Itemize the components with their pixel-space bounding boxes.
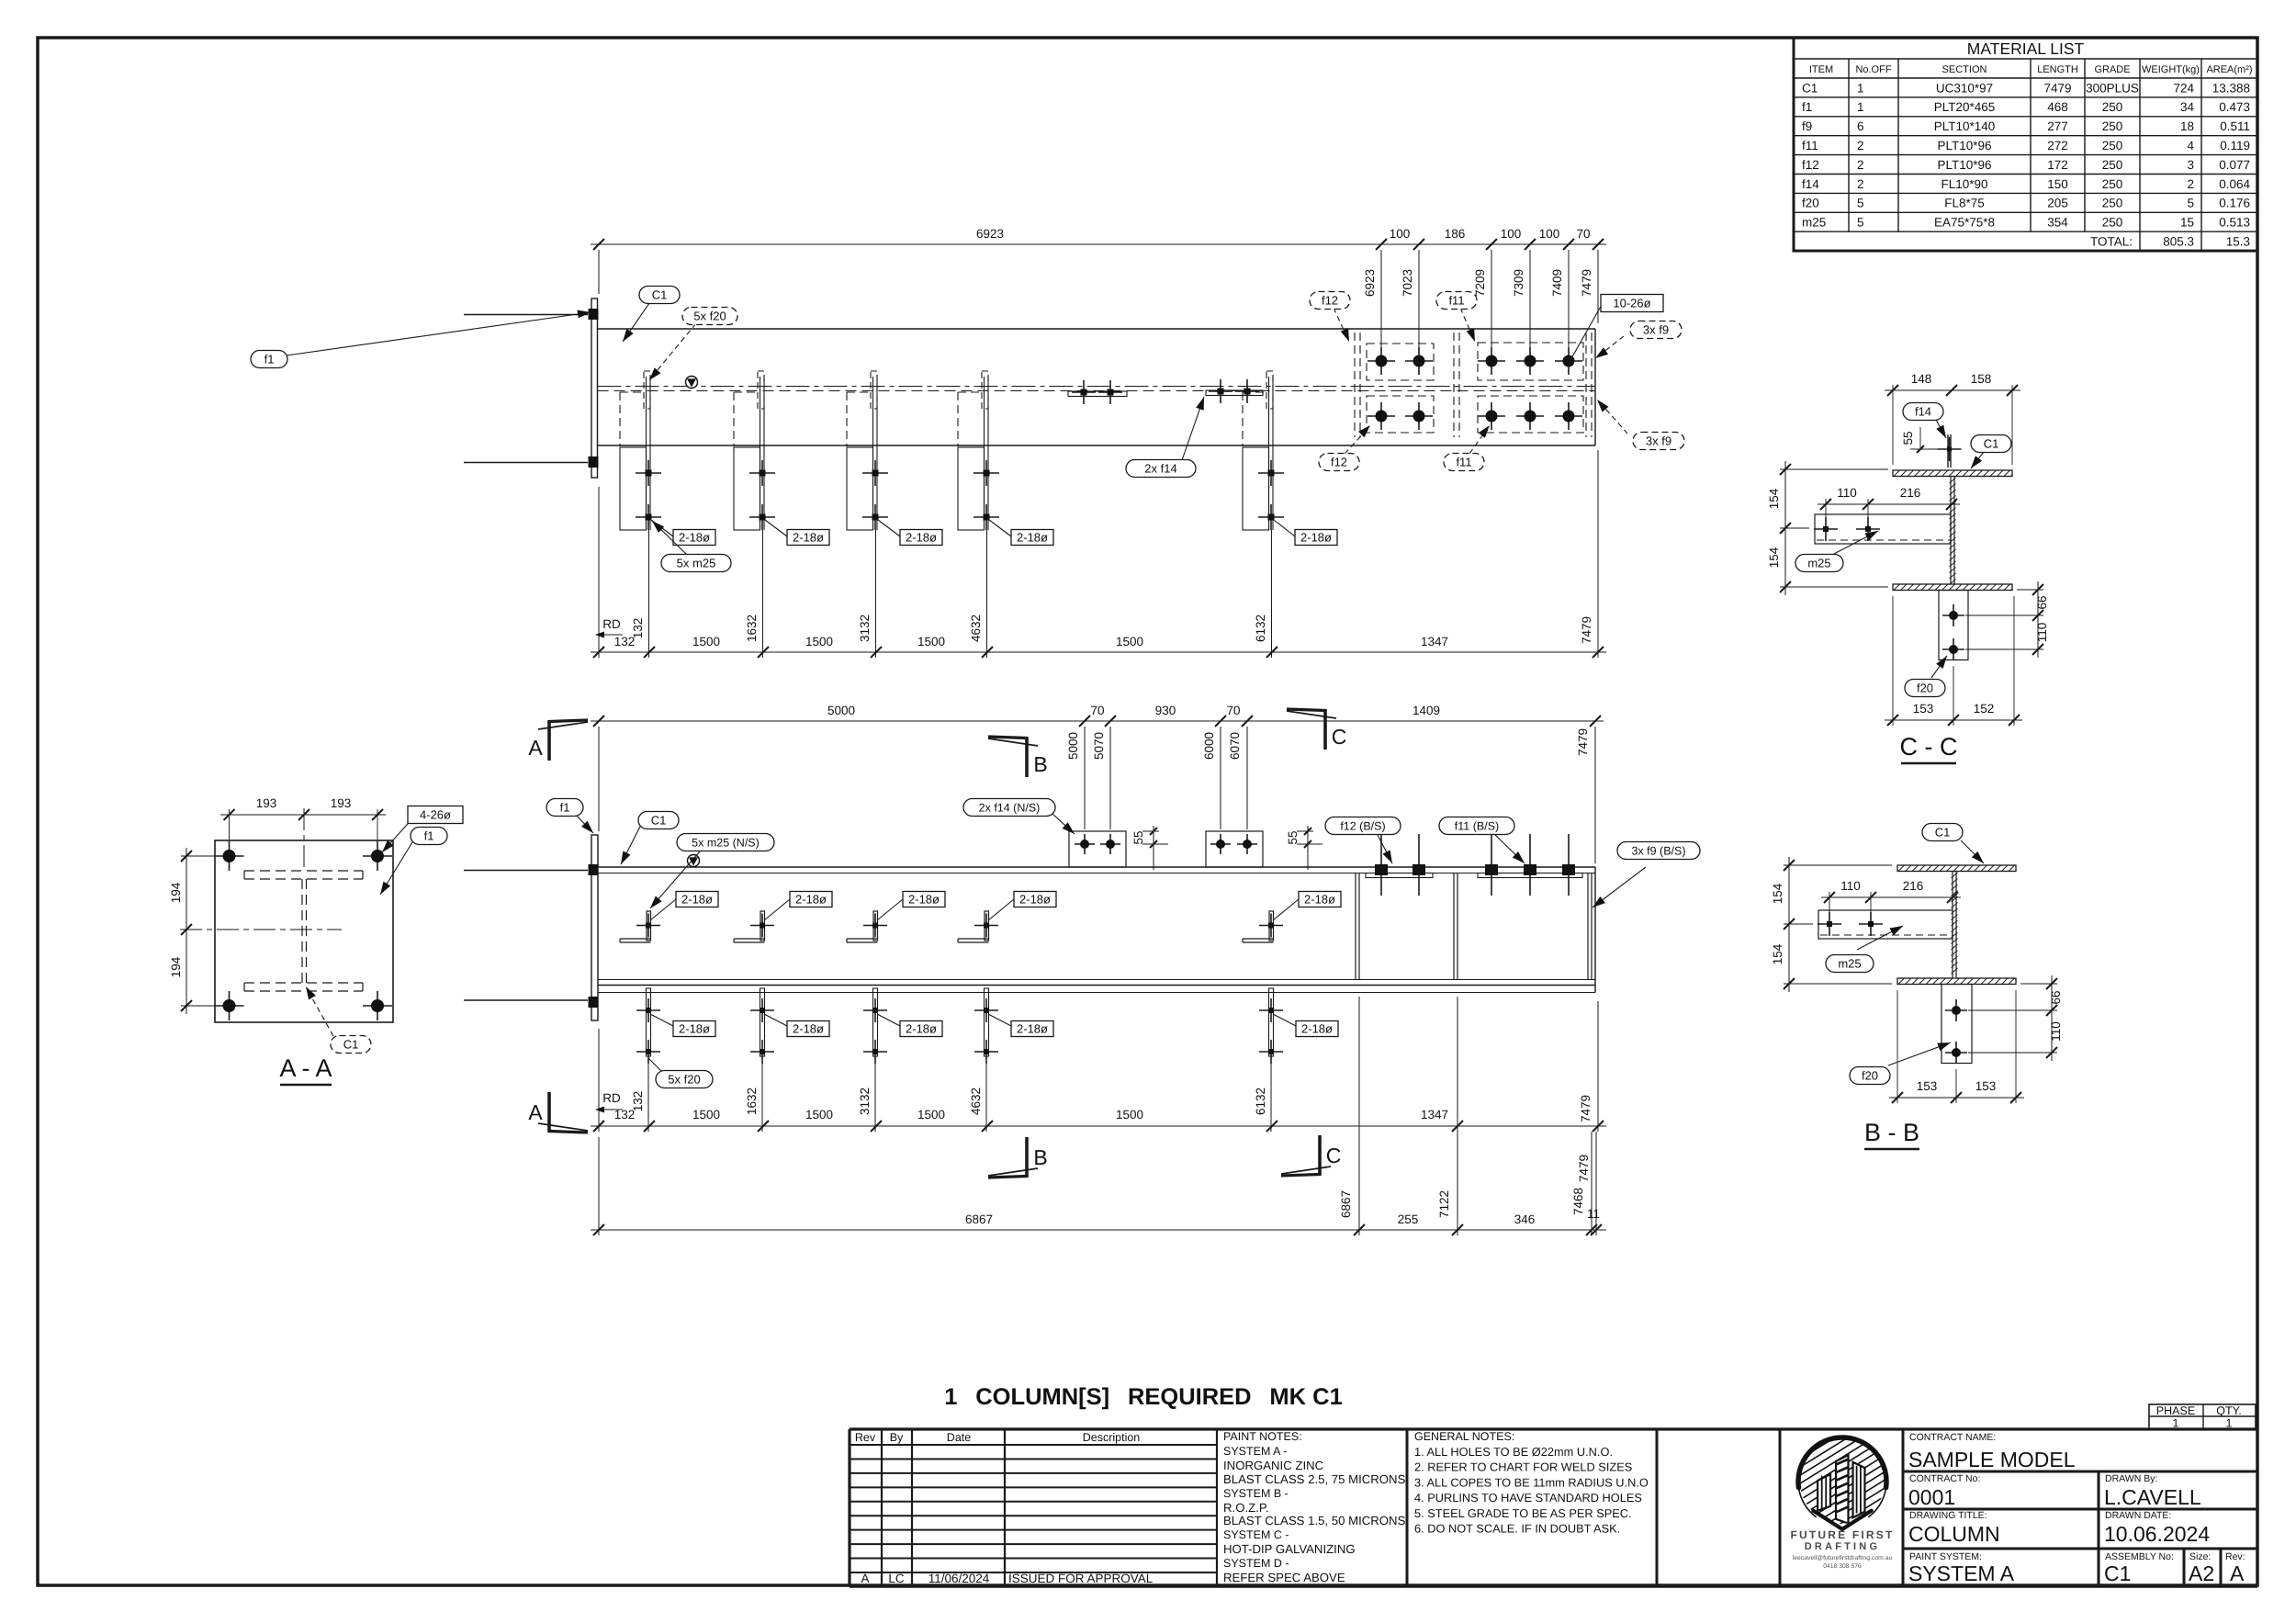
- elevation: cleat label 2-18ø #4: [988, 899, 1014, 920]
- svg-text:2-18ø: 2-18ø: [679, 1022, 710, 1036]
- svg-text:6000: 6000: [1202, 732, 1216, 760]
- svg-text:RD: RD: [602, 1091, 621, 1105]
- svg-text:REFER SPEC ABOVE: REFER SPEC ABOVE: [1223, 1571, 1345, 1584]
- svg-text:6132: 6132: [1254, 1088, 1267, 1115]
- svg-text:277: 277: [2047, 119, 2068, 133]
- top view: f12 plate edge (hidden): [1354, 332, 1356, 437]
- svg-text:No.OFF: No.OFF: [1855, 64, 1891, 75]
- elevation: beam right end f9 plates: [1587, 873, 1589, 980]
- elevation: cleat label 2-18ø #1: [650, 899, 676, 920]
- svg-text:m25: m25: [1838, 957, 1861, 971]
- top view: cleat m25 #4: [958, 371, 999, 658]
- svg-text:f1: f1: [560, 801, 570, 815]
- svg-text:7479: 7479: [1580, 269, 1593, 297]
- svg-text:11/06/2024: 11/06/2024: [929, 1572, 990, 1585]
- svg-text:172: 172: [2047, 158, 2068, 172]
- top view: weld symbol: [686, 377, 698, 389]
- svg-text:250: 250: [2102, 197, 2123, 210]
- elevation: angle cleat m25 #5: [1243, 911, 1283, 942]
- svg-text:154: 154: [1771, 943, 1784, 964]
- svg-text:L.CAVELL: L.CAVELL: [2104, 1485, 2201, 1509]
- top view: labels 3x f9: [1598, 336, 1624, 356]
- svg-text:6867: 6867: [965, 1212, 993, 1226]
- svg-text:7479: 7479: [2043, 81, 2071, 95]
- section C-C: bottom flange C1: [1893, 584, 2012, 591]
- title block: logo panel: [1779, 1429, 1782, 1586]
- section C-C: label f14: [1935, 418, 1946, 438]
- svg-text:6: 6: [1857, 119, 1864, 133]
- svg-text:1: 1: [2226, 1417, 2233, 1430]
- elevation: f20 plate #2: [750, 988, 774, 1132]
- svg-text:2-18ø: 2-18ø: [793, 531, 824, 545]
- svg-text:A - A: A - A: [279, 1054, 332, 1082]
- svg-text:CONTRACT NAME:: CONTRACT NAME:: [1909, 1432, 1996, 1443]
- svg-text:3132: 3132: [858, 614, 872, 642]
- svg-text:66: 66: [2049, 990, 2063, 1004]
- svg-text:4632: 4632: [969, 1088, 983, 1115]
- section B-B: right dimension 66/110: [1968, 975, 2063, 1061]
- svg-text:18: 18: [2180, 119, 2194, 133]
- svg-text:f11: f11: [1802, 139, 1818, 152]
- svg-text:CONTRACT No:: CONTRACT No:: [1909, 1473, 1980, 1484]
- svg-text:153: 153: [1913, 702, 1934, 716]
- elevation: beam C1 flanges: [598, 866, 1595, 868]
- svg-text:300PLUS: 300PLUS: [2086, 81, 2139, 95]
- svg-text:2-18ø: 2-18ø: [1304, 893, 1335, 907]
- svg-text:2-18ø: 2-18ø: [795, 893, 827, 907]
- svg-text:f1: f1: [264, 353, 275, 366]
- svg-text:2: 2: [1857, 139, 1864, 152]
- top view: left connection lines: [464, 314, 588, 316]
- svg-text:GRADE: GRADE: [2094, 64, 2130, 75]
- svg-text:6132: 6132: [1254, 614, 1267, 642]
- elevation: f20 plate #3: [863, 988, 887, 1132]
- svg-text:6923: 6923: [976, 227, 1004, 241]
- svg-text:SYSTEM C -: SYSTEM C -: [1223, 1528, 1289, 1541]
- svg-text:154: 154: [1767, 547, 1781, 568]
- elevation: angle cleat m25 #4: [958, 911, 998, 942]
- svg-text:153: 153: [1975, 1079, 1997, 1093]
- svg-text:354: 354: [2047, 216, 2068, 230]
- svg-text:PLT10*96: PLT10*96: [1937, 158, 1991, 172]
- svg-text:5x f20: 5x f20: [668, 1073, 700, 1087]
- svg-text:C1: C1: [1935, 826, 1951, 840]
- svg-text:SYSTEM A -: SYSTEM A -: [1223, 1445, 1287, 1458]
- svg-text:70: 70: [1226, 704, 1240, 717]
- svg-text:PAINT NOTES:: PAINT NOTES:: [1223, 1430, 1302, 1443]
- svg-text:f20: f20: [1917, 682, 1933, 695]
- svg-text:0.511: 0.511: [2220, 119, 2250, 133]
- svg-text:B - B: B - B: [1864, 1119, 1919, 1146]
- svg-text:110: 110: [1837, 486, 1857, 500]
- svg-text:7468: 7468: [1571, 1188, 1585, 1215]
- svg-text:7409: 7409: [1550, 269, 1564, 297]
- svg-text:DRAFTING: DRAFTING: [1805, 1541, 1880, 1552]
- svg-text:724: 724: [2173, 81, 2194, 95]
- svg-text:7023: 7023: [1401, 269, 1414, 297]
- title block: phase qty table: [2149, 1404, 2256, 1430]
- svg-text:3x f9 (B/S): 3x f9 (B/S): [1631, 845, 1685, 858]
- elevation: f20 label 2-18ø #1: [650, 1014, 673, 1026]
- svg-text:f1: f1: [424, 829, 434, 843]
- svg-text:f9: f9: [1802, 119, 1812, 133]
- svg-text:1: 1: [1857, 81, 1864, 95]
- elevation: f11 plate under flange: [1478, 873, 1582, 878]
- svg-text:C1: C1: [651, 814, 667, 828]
- section B-B: bottom dimension 153/153: [1889, 990, 2024, 1103]
- svg-text:10.06.2024: 10.06.2024: [2104, 1522, 2210, 1546]
- section marker A top: [528, 720, 588, 761]
- svg-text:f12: f12: [1331, 456, 1347, 469]
- elevation: label f1: [577, 816, 593, 833]
- svg-text:5: 5: [1857, 197, 1864, 210]
- svg-text:A: A: [861, 1572, 869, 1585]
- top view: cleat m25 #3: [847, 371, 888, 658]
- svg-text:100: 100: [1539, 227, 1560, 241]
- svg-text:70: 70: [1576, 227, 1590, 241]
- svg-text:1 COLUMN[S] REQUIRED MK C1: 1 COLUMN[S] REQUIRED MK C1: [944, 1384, 1343, 1410]
- svg-text:HOT-DIP GALVANIZING: HOT-DIP GALVANIZING: [1223, 1542, 1356, 1556]
- top view: cleat m25 #2: [734, 371, 775, 658]
- svg-text:930: 930: [1155, 704, 1176, 717]
- svg-text:COLUMN: COLUMN: [1908, 1522, 2000, 1546]
- svg-text:C1: C1: [1802, 81, 1818, 95]
- section C-C: 55 dim: [1919, 427, 1921, 449]
- svg-text:7479: 7479: [1580, 616, 1593, 644]
- svg-text:1500: 1500: [692, 635, 720, 648]
- elevation: flange bolts f12: [1380, 834, 1382, 896]
- svg-text:1500: 1500: [692, 1108, 720, 1121]
- svg-text:6867: 6867: [1339, 1190, 1353, 1218]
- svg-text:m25: m25: [1807, 557, 1830, 570]
- elevation: f20 label 2-18ø #3: [877, 1014, 900, 1026]
- svg-text:1347: 1347: [1421, 635, 1448, 648]
- top view: label f1: [287, 312, 591, 355]
- material list table: [1794, 38, 2257, 251]
- svg-text:f14: f14: [1915, 405, 1931, 419]
- section A-A: anchor bolts 26dia: [215, 855, 244, 857]
- svg-text:DRAWN DATE:: DRAWN DATE:: [2105, 1510, 2171, 1521]
- svg-text:3x f9: 3x f9: [1643, 323, 1669, 337]
- svg-text:1347: 1347: [1421, 1108, 1448, 1121]
- svg-text:A2: A2: [2189, 1561, 2214, 1585]
- elevation: label 2x f14 (N/S): [1052, 814, 1075, 834]
- svg-text:2x f14: 2x f14: [1144, 462, 1176, 476]
- svg-text:1500: 1500: [1116, 635, 1143, 648]
- svg-text:6923: 6923: [1363, 269, 1377, 297]
- svg-text:2-18ø: 2-18ø: [1017, 1022, 1048, 1036]
- svg-text:SYSTEM A: SYSTEM A: [1908, 1561, 2015, 1585]
- title block: drawing title / drawn date: [1903, 1510, 2257, 1549]
- svg-text:250: 250: [2102, 139, 2123, 152]
- svg-text:m25: m25: [1802, 216, 1826, 230]
- svg-text:UC310*97: UC310*97: [1936, 81, 1993, 95]
- svg-text:34: 34: [2180, 100, 2195, 114]
- svg-text:272: 272: [2047, 139, 2068, 152]
- section C-C: label m25: [1832, 531, 1878, 555]
- svg-text:0418 308 576: 0418 308 576: [1823, 1563, 1862, 1570]
- svg-text:3x f9: 3x f9: [1646, 434, 1671, 448]
- section A-A: left dimension 194/194: [169, 848, 222, 1014]
- top view: label 2-18ø #2: [765, 520, 787, 536]
- top view: beam centre lines: [598, 386, 1596, 388]
- svg-text:2-18ø: 2-18ø: [1017, 531, 1048, 545]
- svg-text:f14: f14: [1802, 177, 1819, 191]
- svg-text:1: 1: [2173, 1417, 2179, 1430]
- svg-text:7209: 7209: [1473, 269, 1487, 297]
- svg-text:TOTAL:: TOTAL:: [2090, 235, 2133, 249]
- svg-text:250: 250: [2102, 100, 2123, 114]
- svg-text:148: 148: [1911, 372, 1932, 386]
- elevation: cleat label 2-18ø #3: [877, 899, 903, 920]
- svg-text:C - C: C - C: [1900, 733, 1958, 761]
- svg-text:EA75*75*8: EA75*75*8: [1934, 216, 1995, 230]
- svg-text:LENGTH: LENGTH: [2037, 64, 2078, 75]
- svg-text:154: 154: [1767, 488, 1781, 509]
- elevation: end plate f1: [591, 835, 598, 1020]
- top view: end plate f1: [591, 299, 598, 478]
- svg-text:AREA(m²): AREA(m²): [2206, 64, 2252, 75]
- elevation: weld symbol: [688, 855, 700, 867]
- section C-C: top dimension 148/158: [1885, 372, 2020, 465]
- top view: label 2-18ø #3: [878, 520, 900, 536]
- svg-text:FUTURE FIRST: FUTURE FIRST: [1790, 1528, 1894, 1541]
- svg-text:QTY.: QTY.: [2216, 1404, 2242, 1417]
- svg-text:6. DO NOT SCALE. IF IN DOUBT A: 6. DO NOT SCALE. IF IN DOUBT ASK.: [1414, 1522, 1620, 1536]
- svg-text:100: 100: [1390, 227, 1411, 241]
- svg-text:1: 1: [1857, 100, 1864, 114]
- svg-text:193: 193: [331, 796, 352, 810]
- section marker C bottom: [1281, 1135, 1341, 1176]
- section B-B: label f20: [1888, 1043, 1951, 1065]
- svg-text:2-18ø: 2-18ø: [679, 531, 710, 545]
- svg-text:SYSTEM D -: SYSTEM D -: [1223, 1557, 1289, 1570]
- top view: f9 end plates edge (hidden): [1585, 332, 1587, 437]
- svg-text:A: A: [2230, 1561, 2245, 1585]
- section A-A: centre lines: [180, 929, 342, 930]
- elevation: label f11 (B/S): [1495, 835, 1525, 863]
- section B-B: dimension 110/216: [1821, 879, 1961, 915]
- svg-text:f12: f12: [1322, 294, 1338, 308]
- top view: label 2-18ø #5: [1274, 520, 1295, 536]
- svg-text:FL10*90: FL10*90: [1941, 177, 1987, 191]
- svg-text:SYSTEM B -: SYSTEM B -: [1223, 1487, 1289, 1500]
- svg-text:55: 55: [1286, 830, 1300, 844]
- svg-text:250: 250: [2102, 119, 2123, 133]
- elevation: angle cleat m25 #1: [620, 911, 660, 942]
- svg-text:SECTION: SECTION: [1942, 64, 1987, 75]
- elevation: f12 web plate edges: [1355, 873, 1356, 980]
- svg-text:4. PURLINS TO HAVE STANDARD HO: 4. PURLINS TO HAVE STANDARD HOLES: [1414, 1491, 1642, 1505]
- svg-text:C1: C1: [343, 1038, 359, 1052]
- section marker B bottom: [988, 1137, 1048, 1178]
- section C-C: label f20: [1931, 656, 1947, 678]
- svg-text:7479: 7479: [1576, 728, 1590, 756]
- svg-text:0.473: 0.473: [2219, 100, 2250, 114]
- svg-text:1632: 1632: [745, 1088, 759, 1115]
- section marker B top: [988, 737, 1048, 777]
- svg-text:250: 250: [2102, 216, 2123, 230]
- section marker C top: [1287, 709, 1346, 750]
- svg-text:250: 250: [2102, 177, 2123, 191]
- section A-A: hidden column section C1: [244, 871, 363, 991]
- svg-text:7309: 7309: [1512, 269, 1525, 297]
- svg-text:2-18ø: 2-18ø: [1301, 1022, 1333, 1036]
- svg-text:Description: Description: [1083, 1431, 1141, 1444]
- svg-text:70: 70: [1090, 704, 1104, 717]
- svg-text:2: 2: [1857, 177, 1864, 191]
- section B-B: web C1: [1952, 872, 1953, 979]
- section B-B: label C1: [1961, 840, 1984, 863]
- title block: contract no / drawn by: [1903, 1471, 2257, 1586]
- svg-text:194: 194: [169, 882, 183, 903]
- title block: general notes: [1414, 1429, 1657, 1586]
- top view: bolts 26dia: [1367, 360, 1395, 362]
- section A-A: base plate f1: [215, 840, 393, 1022]
- svg-text:250: 250: [2102, 158, 2123, 172]
- top view: label 2-18ø #1: [651, 520, 673, 536]
- elevation: f12 plate under flange: [1366, 873, 1433, 878]
- section C-C: dimension 110/216: [1818, 486, 1960, 520]
- elevation: dimension row 6867/255/346/11: [591, 997, 1606, 1235]
- svg-text:154: 154: [1771, 883, 1784, 904]
- svg-text:SAMPLE MODEL: SAMPLE MODEL: [1908, 1448, 2076, 1471]
- elevation: f20 plate #1: [636, 988, 660, 1132]
- svg-text:11: 11: [1587, 1207, 1600, 1221]
- svg-text:150: 150: [2047, 177, 2068, 191]
- elevation: cleat label 2-18ø #2: [764, 899, 790, 920]
- top view: label 2-18ø #4: [989, 520, 1011, 536]
- top view: f11 plate edge (hidden): [1453, 332, 1455, 437]
- section C-C: plate f14: [1947, 434, 1949, 468]
- svg-text:R.O.Z.P.: R.O.Z.P.: [1223, 1501, 1269, 1515]
- svg-text:7122: 7122: [1437, 1190, 1451, 1218]
- section C-C: right dimension 66/110: [1965, 581, 2049, 658]
- svg-text:1. ALL HOLES TO BE Ø22mm U.N.O: 1. ALL HOLES TO BE Ø22mm U.N.O.: [1414, 1445, 1613, 1459]
- top view: f11 labels: [1460, 308, 1473, 338]
- svg-text:55: 55: [1131, 830, 1145, 844]
- svg-text:55: 55: [1901, 431, 1915, 445]
- top view: f12 labels: [1334, 308, 1347, 338]
- svg-text:INORGANIC ZINC: INORGANIC ZINC: [1223, 1459, 1324, 1472]
- svg-text:f12: f12: [1802, 158, 1819, 172]
- svg-text:1500: 1500: [805, 1108, 833, 1121]
- title block: paint system / assembly no / size / rev: [1908, 1549, 2245, 1586]
- svg-text:1500: 1500: [805, 635, 833, 648]
- svg-text:C: C: [1326, 1144, 1342, 1167]
- svg-text:468: 468: [2047, 100, 2068, 114]
- svg-text:205: 205: [2047, 197, 2068, 210]
- svg-text:BLAST CLASS 1.5, 50 MICRONS: BLAST CLASS 1.5, 50 MICRONS: [1223, 1514, 1406, 1527]
- svg-text:By: By: [890, 1431, 904, 1444]
- top view: label C1: [623, 303, 649, 342]
- svg-text:RD: RD: [602, 617, 621, 631]
- svg-text:216: 216: [1903, 879, 1924, 893]
- svg-text:2-18ø: 2-18ø: [906, 1022, 937, 1036]
- svg-text:194: 194: [169, 956, 183, 977]
- section A-A: label C1: [308, 990, 333, 1036]
- svg-text:1409: 1409: [1412, 704, 1440, 717]
- section B-B: left dimension 154/154: [1771, 857, 1892, 992]
- svg-text:6070: 6070: [1228, 732, 1242, 760]
- svg-text:GENERAL NOTES:: GENERAL NOTES:: [1414, 1430, 1514, 1443]
- svg-text:5: 5: [2187, 197, 2194, 210]
- svg-text:B: B: [1033, 1145, 1047, 1169]
- svg-text:MATERIAL LIST: MATERIAL LIST: [1967, 39, 2085, 58]
- title block: outer frame: [850, 1427, 2257, 1430]
- section A-A: label 4-26dia: [382, 816, 415, 852]
- elevation: f20 plate #5: [1259, 988, 1283, 1132]
- title block: contract name: [1903, 1432, 2257, 1471]
- svg-text:f20: f20: [1802, 197, 1819, 210]
- elevation: left connection lines: [464, 870, 588, 872]
- top view: label 5x f20: [652, 323, 696, 377]
- svg-text:7479: 7479: [1579, 1095, 1593, 1122]
- elevation: f20 label 2-18ø #5: [1273, 1014, 1296, 1026]
- svg-text:C: C: [1332, 725, 1347, 749]
- svg-text:5x m25 (N/S): 5x m25 (N/S): [692, 837, 760, 850]
- svg-text:1500: 1500: [1116, 1108, 1143, 1121]
- svg-text:B: B: [1033, 752, 1047, 776]
- svg-text:0.513: 0.513: [2219, 216, 2250, 230]
- section B-B: top flange C1: [1897, 865, 2016, 872]
- svg-text:346: 346: [1514, 1212, 1536, 1226]
- svg-text:f1: f1: [1802, 100, 1812, 114]
- svg-text:4: 4: [2187, 139, 2194, 152]
- svg-text:3: 3: [2187, 158, 2194, 172]
- svg-text:C1: C1: [2104, 1561, 2131, 1585]
- svg-text:0001: 0001: [1908, 1485, 1955, 1509]
- svg-text:110: 110: [1840, 879, 1861, 893]
- svg-text:f11 (B/S): f11 (B/S): [1455, 820, 1499, 833]
- top view: cleat m25 #1: [620, 371, 661, 658]
- svg-text:158: 158: [1971, 372, 1992, 386]
- svg-text:2-18ø: 2-18ø: [1019, 893, 1051, 907]
- svg-text:4632: 4632: [969, 614, 983, 642]
- svg-text:1500: 1500: [917, 635, 945, 648]
- svg-text:f11: f11: [1456, 456, 1471, 469]
- svg-text:3. ALL COPES TO BE 11mm RADIUS: 3. ALL COPES TO BE 11mm RADIUS U.N.O: [1414, 1475, 1649, 1489]
- svg-text:A: A: [528, 736, 543, 760]
- svg-text:A: A: [528, 1100, 543, 1124]
- svg-text:2-18ø: 2-18ø: [908, 893, 940, 907]
- svg-text:4-26ø: 4-26ø: [420, 808, 451, 822]
- svg-text:2-18ø: 2-18ø: [793, 1022, 824, 1036]
- elevation: label C1: [621, 821, 643, 864]
- elevation: f20 label 2-18ø #2: [764, 1014, 787, 1026]
- title block: paint notes: [1223, 1429, 1407, 1586]
- top view: beam flange edges C1: [598, 328, 1596, 330]
- svg-text:5x m25: 5x m25: [677, 557, 716, 570]
- elevation: f20 plate #4: [974, 988, 998, 1132]
- svg-text:15.3: 15.3: [2226, 235, 2250, 249]
- elevation: f20 label 2-18ø #4: [988, 1014, 1011, 1026]
- svg-text:193: 193: [256, 796, 277, 810]
- section C-C: left dimension 154/154: [1767, 461, 1888, 595]
- svg-text:C1: C1: [1984, 437, 1999, 451]
- svg-text:2x f14 (N/S): 2x f14 (N/S): [979, 802, 1041, 815]
- section B-B: plate f20: [1941, 985, 1972, 1064]
- svg-text:2. REFER TO CHART FOR WELD SIZ: 2. REFER TO CHART FOR WELD SIZES: [1414, 1460, 1632, 1474]
- svg-text:7479: 7479: [1577, 1155, 1591, 1182]
- section A-A: label f1: [380, 838, 415, 895]
- elevation: label 5x m25 (N/S): [650, 851, 700, 908]
- top view: label 5x m25: [652, 521, 687, 555]
- elevation: flange bolts f11: [1491, 834, 1492, 896]
- section B-B: cleat m25: [1818, 910, 1953, 939]
- top view: f12 bolt group boxes: [1367, 344, 1434, 380]
- svg-text:Date: Date: [947, 1431, 971, 1444]
